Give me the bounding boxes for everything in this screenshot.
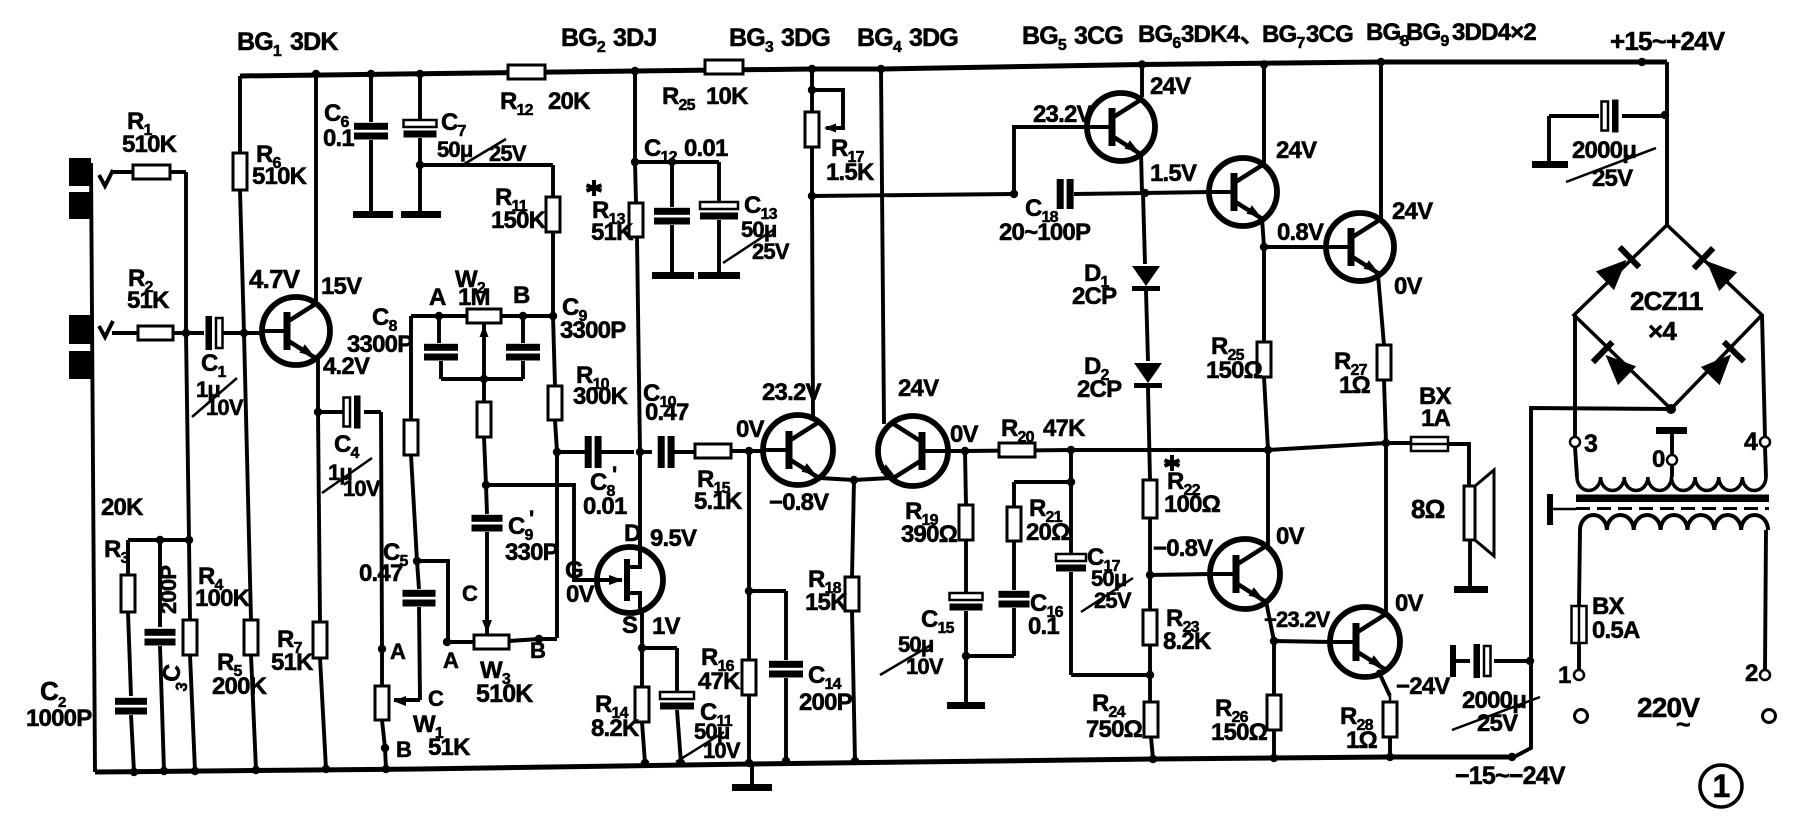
svg-text:25V: 25V — [1094, 588, 1132, 613]
svg-text:25V: 25V — [752, 239, 790, 264]
svg-text:−24V: −24V — [1396, 673, 1450, 700]
svg-text:3DD4×2: 3DD4×2 — [1452, 19, 1536, 46]
svg-text:24V: 24V — [898, 375, 939, 402]
svg-text:23.2V: 23.2V — [762, 379, 822, 406]
svg-text:330P: 330P — [505, 539, 559, 566]
svg-text:2: 2 — [1745, 660, 1758, 687]
svg-text:200P: 200P — [799, 689, 853, 716]
svg-text:200K: 200K — [212, 673, 268, 700]
svg-text:1.5V: 1.5V — [1150, 160, 1197, 187]
svg-text:3CG: 3CG — [1306, 21, 1353, 48]
svg-text:0V: 0V — [736, 416, 765, 443]
svg-text:300K: 300K — [573, 383, 629, 410]
svg-text:1Ω: 1Ω — [1346, 727, 1378, 754]
svg-text:24V: 24V — [1392, 198, 1433, 225]
svg-text:−0.8V: −0.8V — [1153, 535, 1213, 562]
svg-text:8Ω: 8Ω — [1411, 494, 1445, 524]
svg-text:24V: 24V — [1150, 73, 1191, 100]
svg-text:51K: 51K — [591, 219, 634, 246]
svg-text:8.2K: 8.2K — [591, 715, 640, 742]
svg-text:510K: 510K — [476, 680, 533, 708]
svg-text:8.2K: 8.2K — [1163, 628, 1212, 655]
svg-text:0.1: 0.1 — [1028, 613, 1059, 640]
svg-text:3300P: 3300P — [560, 317, 626, 344]
svg-text:25V: 25V — [489, 141, 527, 166]
svg-text:−15~−24V: −15~−24V — [1455, 762, 1566, 790]
svg-text:': ' — [612, 462, 617, 487]
svg-text:150Ω: 150Ω — [1211, 719, 1268, 746]
svg-text:0.5A: 0.5A — [1592, 617, 1640, 644]
svg-text:0: 0 — [1652, 446, 1665, 473]
svg-text:0V: 0V — [1394, 273, 1423, 300]
svg-text:0V: 0V — [1395, 590, 1424, 617]
svg-text:×4: ×4 — [1648, 316, 1677, 346]
svg-text:3DK: 3DK — [290, 28, 338, 56]
svg-text:100Ω: 100Ω — [1164, 491, 1221, 518]
svg-text:0.8V: 0.8V — [1277, 219, 1324, 246]
svg-text:−23.2V: −23.2V — [1264, 607, 1331, 632]
svg-text:51K: 51K — [428, 734, 471, 761]
svg-text:3DG: 3DG — [781, 24, 830, 52]
svg-text:+15~+24V: +15~+24V — [1610, 26, 1726, 56]
svg-text:20~100P: 20~100P — [999, 219, 1091, 246]
svg-text:~: ~ — [1676, 711, 1690, 739]
svg-text:1V: 1V — [652, 613, 681, 640]
svg-text:23.2V: 23.2V — [1033, 101, 1093, 128]
svg-text:200P: 200P — [156, 566, 181, 614]
svg-text:4: 4 — [1744, 428, 1758, 456]
svg-text:0.47: 0.47 — [645, 399, 689, 426]
svg-text:9.5V: 9.5V — [650, 525, 697, 552]
svg-text:3300P: 3300P — [347, 331, 413, 358]
svg-text:D: D — [624, 520, 641, 547]
svg-text:51K: 51K — [271, 649, 314, 676]
svg-text:10V: 10V — [906, 654, 944, 679]
svg-text:A: A — [429, 284, 446, 311]
svg-text:0.01: 0.01 — [583, 493, 627, 520]
svg-text:20K: 20K — [101, 494, 144, 521]
svg-text:C: C — [462, 581, 478, 606]
svg-text:24V: 24V — [1276, 137, 1317, 164]
svg-text:0.01: 0.01 — [684, 135, 728, 162]
svg-text:0V: 0V — [1276, 523, 1305, 550]
svg-text:B: B — [513, 282, 530, 309]
svg-text:50μ: 50μ — [437, 137, 473, 162]
svg-text:2CP: 2CP — [1072, 283, 1117, 310]
svg-text:': ' — [529, 506, 534, 531]
svg-text:10K: 10K — [706, 83, 749, 110]
svg-text:15K: 15K — [805, 589, 848, 616]
svg-text:3DG: 3DG — [909, 24, 958, 52]
svg-text:C: C — [428, 686, 444, 711]
svg-text:20K: 20K — [548, 88, 591, 115]
svg-text:5.1K: 5.1K — [694, 488, 743, 515]
svg-text:G: G — [565, 557, 583, 584]
svg-text:220V: 220V — [1637, 692, 1700, 723]
svg-text:100K: 100K — [195, 585, 251, 612]
svg-text:150K: 150K — [491, 207, 547, 234]
svg-text:B: B — [396, 737, 411, 762]
svg-text:51K: 51K — [127, 287, 170, 314]
svg-text:1: 1 — [1558, 662, 1571, 689]
svg-text:2CP: 2CP — [1077, 376, 1122, 403]
svg-text:10V: 10V — [206, 395, 244, 420]
svg-text:C: C — [40, 676, 59, 706]
svg-text:10V: 10V — [703, 738, 741, 763]
svg-text:25V: 25V — [1592, 165, 1633, 192]
svg-text:10V: 10V — [343, 476, 381, 501]
svg-text:A: A — [443, 648, 459, 673]
svg-text:2CZ11: 2CZ11 — [1630, 286, 1703, 316]
svg-text:、: 、 — [1240, 21, 1263, 48]
svg-text:1Ω: 1Ω — [1339, 372, 1371, 399]
svg-text:3DK4: 3DK4 — [1181, 21, 1241, 48]
svg-text:0.47: 0.47 — [359, 560, 403, 587]
svg-text:BX: BX — [1592, 593, 1625, 620]
svg-text:510K: 510K — [122, 131, 178, 158]
svg-text:510K: 510K — [252, 163, 308, 190]
svg-text:3: 3 — [1584, 430, 1597, 458]
svg-text:47K: 47K — [698, 668, 741, 695]
svg-text:3CG: 3CG — [1074, 22, 1123, 50]
svg-text:390Ω: 390Ω — [901, 521, 958, 548]
svg-text:,: , — [1398, 19, 1404, 46]
svg-text:1M: 1M — [458, 284, 490, 311]
svg-text:47K: 47K — [1043, 415, 1086, 442]
svg-text:1.5K: 1.5K — [826, 159, 875, 186]
svg-text:20Ω: 20Ω — [1026, 519, 1070, 546]
svg-text:1: 1 — [1713, 768, 1730, 804]
svg-text:4.7V: 4.7V — [249, 264, 301, 294]
svg-text:150Ω: 150Ω — [1206, 357, 1263, 384]
svg-text:B: B — [530, 638, 545, 663]
svg-text:3DJ: 3DJ — [613, 24, 656, 52]
svg-text:1000P: 1000P — [26, 705, 92, 732]
svg-text:750Ω: 750Ω — [1086, 716, 1143, 743]
svg-text:0V: 0V — [950, 421, 979, 448]
svg-text:15V: 15V — [321, 273, 362, 300]
svg-text:1A: 1A — [1421, 405, 1451, 432]
svg-text:S: S — [622, 612, 638, 639]
svg-text:0.1: 0.1 — [323, 125, 354, 152]
svg-text:−0.8V: −0.8V — [769, 489, 829, 516]
svg-text:25V: 25V — [1477, 710, 1518, 737]
svg-text:0V: 0V — [566, 581, 595, 608]
svg-text:A: A — [390, 639, 406, 664]
